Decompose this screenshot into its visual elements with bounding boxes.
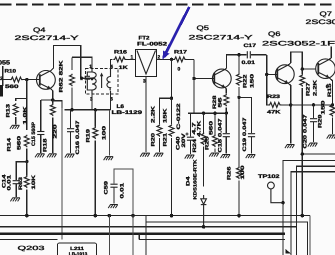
junction dot Q6 base	[265, 73, 268, 76]
svg-text:R17: R17	[174, 50, 187, 56]
svg-text:R19: R19	[85, 129, 91, 143]
svg-text:Q203: Q203	[18, 245, 46, 252]
ground below C18	[221, 155, 231, 159]
svg-text:15K: 15K	[163, 108, 169, 123]
junction dot C20 top	[312, 103, 315, 106]
gray wire from Q4 emitter node to bottom	[53, 101, 62, 108]
junction dot R20/R21	[170, 97, 173, 100]
svg-text:2SC2714-Y: 2SC2714-Y	[15, 35, 80, 42]
resistor R23 47K	[268, 102, 290, 107]
svg-text:R26: R26	[227, 166, 233, 180]
ground below C15	[35, 154, 45, 158]
svg-text:1K: 1K	[119, 65, 129, 71]
bus line 4 thick	[0, 232, 285, 235]
svg-text:Q6: Q6	[268, 31, 281, 38]
junction dot bias tap	[170, 58, 173, 61]
svg-text:2SC30: 2SC30	[306, 19, 335, 26]
svg-text:2SC3052-1F: 2SC3052-1F	[262, 41, 335, 48]
resistor R13 1.0K	[13, 103, 18, 124]
diode D4 KDS160E-RTK	[201, 195, 207, 227]
ground below R18	[47, 154, 57, 158]
ground below C14	[10, 198, 20, 202]
ground below C20	[308, 143, 318, 147]
junction dot R19 top	[94, 108, 97, 111]
svg-text:R18: R18	[43, 138, 49, 152]
svg-text:0: 0	[178, 67, 181, 73]
resistor R14 560	[24, 135, 29, 162]
lower section box edge (Q203)	[0, 238, 285, 240]
junction dot R22 top	[237, 53, 240, 56]
svg-text:Q4: Q4	[33, 27, 46, 34]
wire: Q6 emitter down to ground	[288, 83, 290, 143]
svg-text:R20: R20	[151, 133, 157, 147]
svg-text:0.01: 0.01	[120, 183, 126, 199]
svg-text:560: 560	[208, 121, 214, 135]
ground below C59	[108, 205, 118, 209]
L6 internal resonating capacitor	[85, 72, 92, 90]
resistor R19 100	[93, 110, 98, 216]
inductor L211 box	[58, 243, 97, 255]
junction dots on rail	[202, 112, 205, 115]
ground below C19	[246, 155, 256, 159]
wire: exit line 4 with drop	[291, 172, 335, 255]
wire: exit line 3 with drop	[296, 166, 335, 255]
junction dot C19 node	[237, 96, 240, 99]
L6 secondary coil	[107, 69, 111, 95]
resistor R18 220	[50, 100, 55, 153]
svg-text:220: 220	[53, 124, 59, 138]
wire: Q7 emitter stub	[329, 78, 332, 105]
svg-text:0.01: 0.01	[7, 175, 13, 191]
svg-text:R62 82K: R62 82K	[59, 60, 65, 93]
svg-text:2.2K: 2.2K	[151, 105, 157, 123]
electrolytic capacitor C40 4.7/20V	[185, 113, 194, 154]
svg-text:R14: R14	[7, 138, 13, 152]
svg-text:C20 0.047: C20 0.047	[302, 114, 308, 148]
svg-text:47K: 47K	[267, 110, 281, 116]
svg-text:L211: L211	[70, 246, 84, 251]
wire: C17 out down to Q6 base	[267, 55, 277, 75]
wire: FT2 pin2 to R17	[157, 58, 174, 60]
FT2 internal V symbol	[137, 51, 156, 75]
svg-text:LB-1129: LB-1129	[112, 110, 143, 116]
Q4 emitter node wire	[41, 99, 53, 101]
resistor R24 4.7K	[201, 113, 206, 186]
capacitor C16 0.047	[67, 110, 74, 153]
wire: exit line 2 with drop	[283, 160, 335, 255]
transformer L6 dashed shield box	[86, 69, 119, 95]
bus A right turndown (gray)	[309, 216, 311, 255]
svg-text:C15 560P: C15 560P	[31, 121, 37, 146]
ground below R29	[327, 135, 335, 139]
svg-text:C16 0.047: C16 0.047	[75, 120, 81, 154]
wire: FT2 pin3 down to ground	[145, 76, 147, 152]
capacitor C59 0.01 loop	[114, 169, 133, 216]
wire: Q4 emitter down	[51, 89, 53, 103]
svg-text:1: 1	[131, 55, 134, 61]
svg-text:4.7K: 4.7K	[197, 120, 203, 137]
bias chain: wire down from base node	[26, 80, 28, 130]
Q5 emitter resistor R28 56	[224, 88, 229, 114]
ground below C40	[185, 155, 195, 159]
wire: Q6 base node down to R23	[267, 74, 269, 105]
svg-text:2SC2714-Y: 2SC2714-Y	[189, 35, 254, 42]
svg-text:2: 2	[0, 76, 3, 82]
bus line 3 junction dot D4	[202, 225, 206, 229]
svg-text:R22: R22	[243, 74, 249, 88]
svg-text:10K: 10K	[31, 174, 37, 189]
ground below C16	[65, 154, 75, 158]
svg-text:Q7: Q7	[320, 11, 333, 18]
wire: Q4 collector up and over	[51, 45, 92, 78]
svg-text:1: 1	[89, 64, 92, 70]
svg-text:Q5: Q5	[197, 25, 210, 32]
resistor R62 82K	[70, 57, 75, 110]
wire: tap to R13	[16, 98, 27, 101]
resistor R29 150	[330, 104, 335, 134]
junction dot on R27 line	[301, 152, 304, 155]
svg-text:KDS160E-RTK: KDS160E-RTK	[193, 159, 198, 200]
junction dot Q7 emitter/R29	[331, 103, 334, 106]
ground below R25	[209, 153, 219, 157]
resistor R25 560	[213, 113, 218, 152]
resistor R21 15K continuing to bus	[169, 98, 174, 216]
lower section stub wires	[108, 216, 110, 255]
transistor Q4	[37, 71, 56, 90]
resistor R22 150	[237, 55, 242, 98]
transistor Q5	[212, 69, 231, 88]
rail under L6: C16 / R19	[65, 109, 111, 111]
test point TP102	[268, 182, 284, 203]
resistor R63 10K	[24, 162, 29, 216]
gray drop from rail to ground (pin6 side)	[108, 110, 110, 156]
svg-text:R16: R16	[114, 50, 127, 56]
svg-text:1.0K: 1.0K	[23, 106, 29, 125]
junction dot emitter node	[51, 98, 54, 101]
svg-text:R29: R29	[318, 114, 324, 128]
arrow marker on drop line	[286, 249, 291, 254]
junction dot emitter/R23	[289, 103, 292, 106]
blue annotation arrow	[163, 7, 190, 60]
junction dot TP102 tie	[281, 201, 284, 204]
svg-text:FL-0052: FL-0052	[137, 41, 167, 47]
bus line 3	[0, 226, 296, 228]
transistor Q7 (clipped at right edge)	[316, 59, 335, 79]
L6 primary coil	[92, 69, 96, 95]
L6 tap junction dot	[91, 77, 94, 80]
wire: left-edge input line with pin 2	[2, 66, 4, 86]
svg-text:R63: R63	[18, 177, 24, 190]
junction dot R62 bottom	[70, 108, 73, 111]
capacitor C14 0.01	[13, 181, 20, 197]
svg-text:R23: R23	[267, 94, 280, 100]
wire: L6 pin 3 down	[91, 94, 93, 110]
bias divider drop wire	[171, 59, 173, 98]
svg-text:C18 0.047: C18 0.047	[218, 118, 224, 152]
bus A horizontal	[0, 215, 310, 217]
ground below pin6 drop line	[104, 157, 114, 161]
wire: exit line 1 from R27 node	[302, 153, 335, 155]
svg-text:C17: C17	[244, 43, 257, 49]
resistor R16 4.1K	[113, 57, 135, 62]
ground below FT2 pin3	[140, 153, 150, 157]
svg-text:055: 055	[0, 60, 11, 67]
svg-text:D4: D4	[186, 176, 192, 186]
resistor R10	[3, 77, 40, 82]
bus A junction dots	[25, 214, 304, 218]
svg-text:56: 56	[218, 97, 224, 107]
wire: Q7 collector stub	[329, 47, 331, 60]
wire: L6 pin 4 up to R16	[111, 59, 113, 68]
wire: Q6 collector up and over	[288, 52, 302, 69]
svg-text:100: 100	[240, 165, 246, 179]
capacitor C17 0.01	[247, 51, 266, 58]
svg-text:R24: R24	[192, 139, 198, 153]
svg-text:C59: C59	[103, 181, 109, 195]
wire: R17 to Q5 base	[194, 59, 214, 78]
transistor Q6	[275, 65, 294, 84]
svg-text:560: 560	[17, 136, 23, 150]
svg-text:R10: R10	[5, 69, 17, 75]
ground below R20	[154, 153, 164, 157]
resistor R20 2.2K	[157, 98, 172, 152]
svg-text:560: 560	[5, 84, 19, 90]
wire: emitter rail to right	[291, 104, 333, 106]
wire: R62 top to L6 pin1	[72, 57, 92, 68]
svg-text:20V: 20V	[181, 132, 187, 147]
svg-text:R15: R15	[327, 83, 333, 97]
svg-text:R25: R25	[204, 136, 210, 150]
resistor R27 2.2K	[300, 69, 305, 216]
svg-text:LB-1913: LB-1913	[69, 251, 88, 255]
svg-text:R27: R27	[306, 82, 312, 96]
svg-text:2.2K: 2.2K	[313, 79, 319, 96]
capacitor C19 0.047	[239, 97, 255, 153]
resistor R17 0	[173, 57, 194, 62]
svg-text:100: 100	[102, 126, 108, 140]
junction dot Q5 base node	[192, 77, 195, 80]
svg-text:TP102: TP102	[258, 174, 280, 180]
ground below Q6 emitter	[285, 145, 295, 149]
svg-text:0.01: 0.01	[242, 60, 256, 66]
resistor R26 100	[237, 97, 242, 215]
emitter rail wire	[188, 79, 226, 114]
ceramic filter FT2 box	[136, 49, 157, 76]
capacitor C20 0.047	[310, 105, 317, 142]
dashed section border (top)	[0, 4, 335, 6]
svg-text:C-0122: C-0122	[176, 103, 182, 129]
wire: L6 pin 6 down	[110, 94, 112, 110]
wire: Q7 base	[302, 68, 316, 70]
capacitor C18 0.047	[223, 113, 230, 153]
capacitor C15 560P	[37, 100, 44, 153]
bus line 2	[146, 216, 308, 255]
svg-text:150: 150	[321, 100, 327, 114]
svg-text:150: 150	[250, 74, 256, 88]
svg-text:R13: R13	[6, 104, 12, 118]
junction dot C14 node	[25, 160, 28, 163]
ground below R13	[10, 125, 20, 129]
svg-text:2: 2	[80, 76, 83, 82]
wire: Q5 collector up	[225, 55, 246, 69]
wire: jog to C14	[16, 162, 27, 180]
svg-text:C19 0.047: C19 0.047	[242, 117, 248, 151]
cut-off component body at left edge	[0, 85, 3, 97]
junction dot Q7 base node	[301, 67, 304, 70]
L6 adjustable core arrow	[100, 73, 103, 89]
junction dot Q4 base node	[25, 78, 28, 81]
svg-text:R21: R21	[163, 133, 169, 147]
